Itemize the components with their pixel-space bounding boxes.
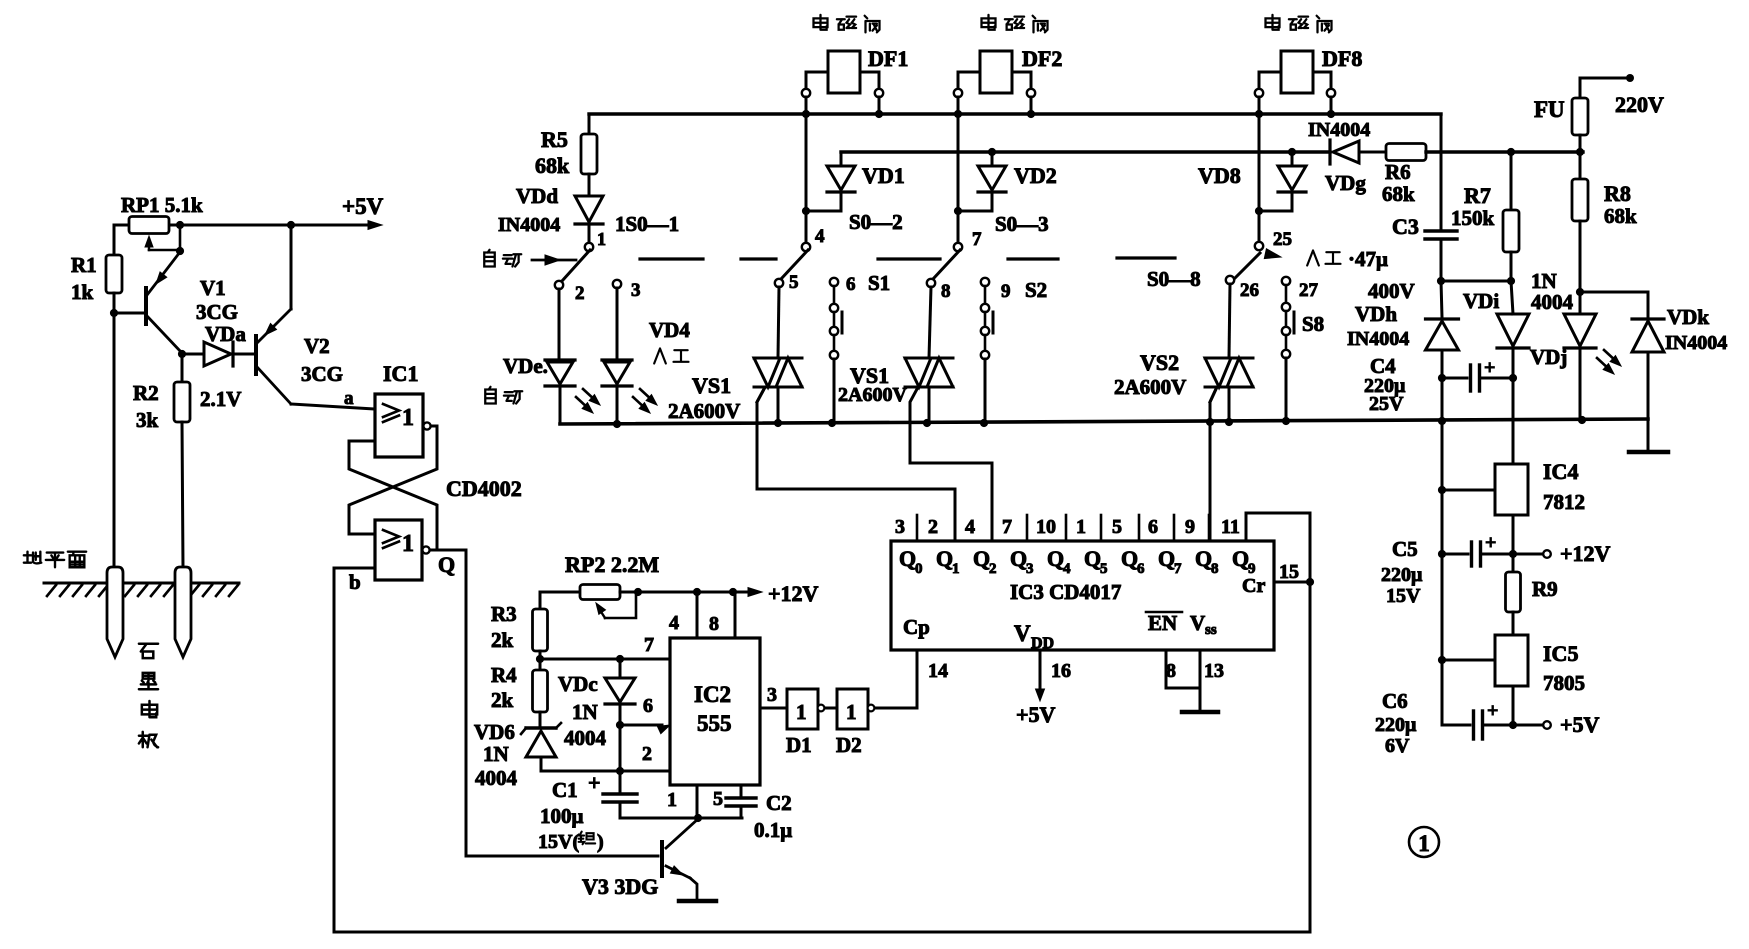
svg-text:8: 8 [941, 281, 951, 302]
svg-text:+5V: +5V [1016, 702, 1056, 727]
svg-text:1: 1 [402, 531, 414, 557]
svg-text:13: 13 [1204, 660, 1224, 682]
svg-text:68k: 68k [535, 153, 570, 178]
svg-text:1: 1 [796, 700, 807, 724]
svg-text:1S0—1: 1S0—1 [615, 212, 679, 236]
svg-text:VS2: VS2 [1140, 350, 1179, 375]
svg-text:CD4002: CD4002 [446, 476, 522, 501]
svg-text:3: 3 [631, 280, 641, 301]
svg-text:6: 6 [1137, 561, 1145, 577]
svg-text:1k: 1k [71, 280, 94, 304]
svg-text:C5: C5 [1392, 537, 1418, 561]
svg-text:220V: 220V [1615, 92, 1664, 117]
svg-text:IC3 CD4017: IC3 CD4017 [1010, 580, 1121, 604]
svg-text:150k: 150k [1451, 206, 1495, 230]
svg-text:VDa: VDa [205, 322, 246, 346]
svg-text:+5V: +5V [342, 194, 384, 219]
svg-text:Q: Q [1158, 546, 1175, 571]
svg-text:3CG: 3CG [196, 300, 238, 324]
svg-text:S0—8: S0—8 [1147, 267, 1201, 291]
svg-text:100μ: 100μ [540, 804, 584, 828]
svg-text:R1: R1 [71, 253, 97, 277]
svg-text:+: + [1484, 357, 1495, 379]
svg-text:IN4004: IN4004 [498, 214, 560, 236]
svg-text:D1: D1 [786, 733, 812, 757]
svg-text:11: 11 [1221, 516, 1240, 538]
svg-text:+: + [1485, 532, 1496, 554]
svg-text:V1: V1 [200, 276, 226, 300]
svg-text:Q: Q [1010, 546, 1027, 571]
svg-text:6: 6 [1148, 516, 1158, 538]
svg-text:1: 1 [1076, 516, 1086, 538]
svg-text:R9: R9 [1532, 577, 1558, 601]
svg-text:S0—3: S0—3 [995, 212, 1049, 236]
svg-text:ss: ss [1205, 622, 1217, 638]
svg-text:1: 1 [597, 229, 606, 249]
svg-text:15V(: 15V( [538, 831, 579, 853]
svg-text:R2: R2 [133, 381, 159, 405]
svg-text:V2: V2 [304, 334, 330, 358]
svg-text:IC1: IC1 [383, 361, 418, 386]
svg-text:2A600V: 2A600V [668, 399, 740, 423]
svg-text:1: 1 [952, 561, 960, 577]
svg-text:S8: S8 [1302, 312, 1324, 336]
svg-text:FU: FU [1534, 97, 1565, 122]
svg-text:C1: C1 [552, 778, 578, 802]
svg-text:4: 4 [815, 226, 825, 247]
svg-text:R4: R4 [491, 663, 517, 687]
svg-text:7805: 7805 [1543, 671, 1585, 695]
svg-text:Q: Q [1232, 546, 1249, 571]
svg-text:220μ: 220μ [1381, 564, 1423, 586]
svg-text:VS1: VS1 [692, 373, 731, 398]
svg-text:3: 3 [1026, 561, 1034, 577]
svg-text:IC2: IC2 [694, 682, 731, 707]
svg-text:9: 9 [1185, 516, 1195, 538]
svg-text:16: 16 [1051, 660, 1071, 682]
svg-text:3CG: 3CG [301, 362, 343, 386]
svg-text:2k: 2k [491, 628, 514, 652]
svg-text:Q: Q [1084, 546, 1101, 571]
svg-text:5: 5 [1100, 561, 1108, 577]
svg-text:Cr: Cr [1242, 575, 1265, 597]
svg-text:VD6: VD6 [474, 720, 515, 744]
svg-text:68k: 68k [1382, 182, 1415, 206]
svg-text:R7: R7 [1464, 183, 1491, 208]
svg-text:27: 27 [1299, 280, 1319, 301]
svg-text:IC4: IC4 [1543, 459, 1578, 484]
svg-text:2k: 2k [491, 688, 514, 712]
svg-text:14: 14 [928, 660, 948, 682]
svg-text:2: 2 [575, 283, 585, 304]
svg-text:Q: Q [899, 546, 916, 571]
svg-text:DF2: DF2 [1022, 46, 1062, 71]
svg-text:Q: Q [1121, 546, 1138, 571]
svg-text:VDk: VDk [1667, 305, 1709, 329]
svg-text:220μ: 220μ [1375, 714, 1417, 736]
svg-text:S0—2: S0—2 [849, 210, 903, 234]
svg-text:VDd: VDd [516, 184, 558, 208]
svg-text:5: 5 [1112, 516, 1122, 538]
svg-text:VDe.: VDe. [503, 354, 548, 378]
svg-text:6V: 6V [1385, 735, 1410, 757]
svg-text:R6: R6 [1385, 160, 1411, 184]
svg-text:R8: R8 [1604, 181, 1631, 206]
svg-text:8: 8 [1166, 660, 1176, 682]
svg-text:2: 2 [642, 743, 652, 765]
svg-text:3: 3 [895, 516, 905, 538]
svg-text:4004: 4004 [564, 726, 607, 750]
svg-text:25: 25 [1273, 229, 1292, 250]
svg-text:7: 7 [1002, 516, 1012, 538]
svg-text:1N: 1N [572, 700, 598, 724]
svg-text:·47μ: ·47μ [1348, 247, 1388, 271]
svg-text:C2: C2 [766, 791, 792, 815]
svg-text:+12V: +12V [1560, 541, 1611, 566]
svg-text:RP1 5.1k: RP1 5.1k [121, 193, 203, 217]
svg-text:3: 3 [767, 684, 777, 706]
svg-text:V: V [1190, 611, 1205, 635]
svg-text:R3: R3 [491, 602, 517, 626]
svg-text:5: 5 [789, 272, 799, 293]
svg-text:1: 1 [1418, 831, 1430, 856]
svg-text:C6: C6 [1382, 689, 1408, 713]
svg-text:2.1V: 2.1V [200, 387, 241, 411]
svg-text:6: 6 [846, 274, 856, 295]
svg-text:7: 7 [1174, 561, 1182, 577]
svg-text:VD8: VD8 [1198, 163, 1241, 188]
svg-text:IN4004: IN4004 [1308, 119, 1370, 141]
svg-text:): ) [597, 831, 604, 853]
svg-text:0: 0 [915, 561, 923, 577]
svg-text:4: 4 [669, 612, 679, 634]
svg-text:2A600V: 2A600V [1114, 375, 1186, 399]
svg-text:1: 1 [402, 405, 414, 431]
svg-text:4: 4 [1063, 561, 1071, 577]
svg-text:1: 1 [667, 789, 677, 811]
svg-text:VD1: VD1 [862, 163, 905, 188]
svg-text:Q: Q [1047, 546, 1064, 571]
svg-text:1: 1 [846, 700, 857, 724]
svg-text:6: 6 [643, 695, 653, 717]
svg-text:VD4: VD4 [649, 318, 690, 342]
svg-text:+: + [1487, 700, 1498, 722]
svg-text:Q: Q [438, 552, 455, 577]
svg-text:+5V: +5V [1560, 712, 1600, 737]
svg-text:+12V: +12V [768, 581, 819, 606]
svg-text:25V: 25V [1369, 393, 1404, 415]
svg-text:400V: 400V [1368, 279, 1415, 303]
svg-text:555: 555 [697, 711, 732, 736]
svg-text:0.1μ: 0.1μ [754, 818, 792, 842]
svg-text:a: a [344, 388, 354, 409]
svg-text:26: 26 [1240, 280, 1259, 301]
svg-text:68k: 68k [1604, 204, 1637, 228]
svg-text:VDc: VDc [558, 672, 598, 696]
svg-text:S1: S1 [868, 271, 890, 295]
svg-text:b: b [349, 570, 361, 594]
svg-text:IN4004: IN4004 [1347, 328, 1409, 350]
svg-text:Q: Q [1195, 546, 1212, 571]
svg-text:8: 8 [1211, 561, 1219, 577]
svg-text:VDi: VDi [1463, 289, 1499, 313]
svg-text:2: 2 [989, 561, 997, 577]
svg-text:VDh: VDh [1355, 302, 1397, 326]
svg-text:IC5: IC5 [1543, 641, 1578, 666]
svg-text:2A600V: 2A600V [838, 384, 907, 406]
svg-text:3k: 3k [136, 408, 159, 432]
svg-text:V3 3DG: V3 3DG [582, 874, 658, 899]
svg-text:7812: 7812 [1543, 490, 1585, 514]
svg-text:15V: 15V [1386, 585, 1421, 607]
svg-text:RP2 2.2M: RP2 2.2M [565, 552, 659, 577]
svg-text:10: 10 [1036, 516, 1056, 538]
svg-text:DD: DD [1031, 635, 1054, 652]
svg-text:IN4004: IN4004 [1665, 332, 1727, 354]
svg-text:DF8: DF8 [1322, 46, 1362, 71]
svg-text:VD2: VD2 [1014, 163, 1057, 188]
svg-text:D2: D2 [836, 733, 862, 757]
svg-text:V: V [1014, 621, 1031, 646]
svg-text:R5: R5 [541, 127, 568, 152]
svg-text:15: 15 [1279, 561, 1299, 583]
svg-text:C3: C3 [1392, 214, 1419, 239]
svg-text:9: 9 [1001, 281, 1011, 302]
svg-text:4004: 4004 [475, 766, 518, 790]
svg-text:VDg: VDg [1325, 171, 1366, 195]
svg-text:DF1: DF1 [868, 46, 908, 71]
svg-text:EN: EN [1148, 611, 1177, 635]
svg-text:VDj: VDj [1530, 345, 1567, 369]
svg-text:Q: Q [936, 546, 953, 571]
svg-text:4: 4 [965, 516, 975, 538]
svg-text:2: 2 [928, 516, 938, 538]
svg-text:7: 7 [972, 229, 982, 250]
svg-text:S2: S2 [1025, 278, 1047, 302]
svg-text:1N: 1N [483, 742, 509, 766]
svg-text:4004: 4004 [1531, 290, 1574, 314]
svg-text:7: 7 [644, 634, 654, 656]
svg-text:+: + [588, 770, 601, 795]
svg-text:Cp: Cp [903, 615, 930, 639]
svg-text:Q: Q [973, 546, 990, 571]
svg-text:5: 5 [713, 788, 723, 810]
svg-text:8: 8 [709, 613, 719, 635]
